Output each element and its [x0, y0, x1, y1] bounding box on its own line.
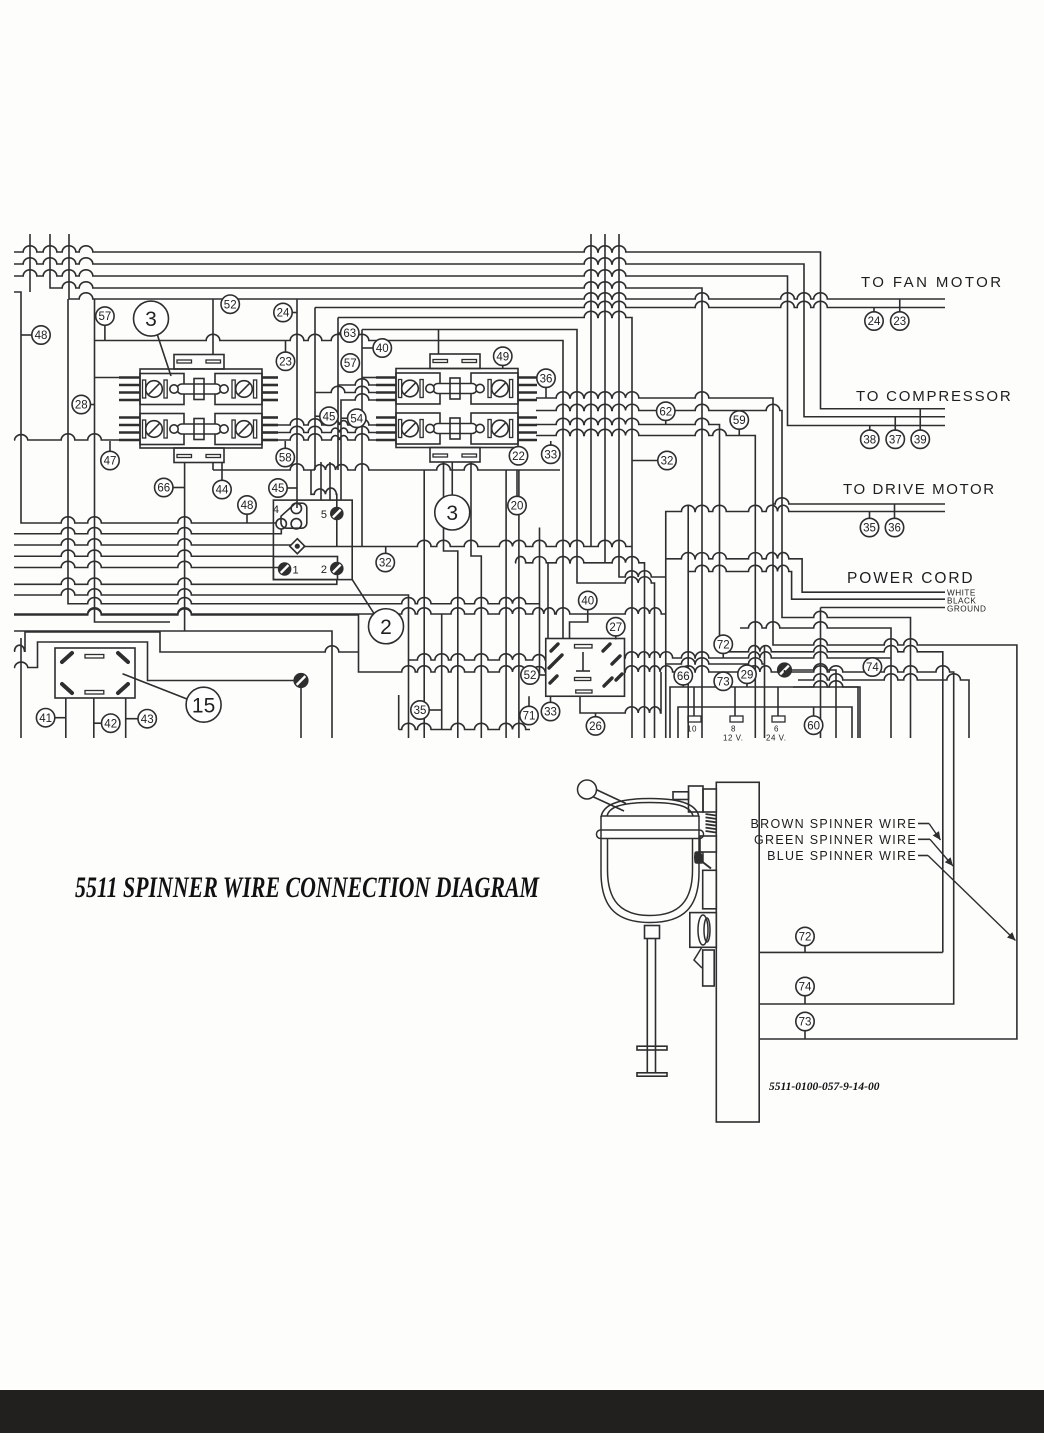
stem 27 — [615, 636, 617, 640]
callout 58 — [276, 448, 294, 466]
terminal board (item 2) — [273, 500, 352, 579]
wire bA — [14, 632, 359, 652]
wire L2 — [14, 258, 945, 417]
wire L5 — [69, 234, 945, 299]
wire w628 — [740, 622, 891, 738]
wire b7 — [14, 578, 337, 584]
callout 38 — [861, 430, 879, 448]
callout big 2 — [369, 609, 404, 644]
callout 47 — [101, 451, 119, 469]
wire pinA feed — [14, 434, 119, 440]
stem bat3 — [777, 687, 779, 716]
wire v688ext — [687, 505, 689, 572]
wire q7 — [518, 470, 520, 738]
svg-text:33: 33 — [544, 449, 557, 461]
svg-text:66: 66 — [677, 671, 690, 683]
svg-text:45: 45 — [272, 483, 285, 495]
callout 44 — [213, 480, 231, 498]
callout 73 — [714, 672, 732, 690]
svg-text:35: 35 — [414, 705, 427, 717]
pointer line item15 — [123, 674, 188, 699]
wire m3 — [619, 234, 666, 577]
wire q3 — [444, 462, 458, 738]
svg-text:22: 22 — [512, 451, 525, 463]
svg-text:20: 20 — [511, 501, 524, 513]
wire row2 link b — [278, 426, 376, 432]
wire bB — [14, 642, 294, 681]
stem 23a — [285, 341, 287, 353]
wire r2 — [536, 404, 911, 738]
stem 66a — [173, 487, 185, 489]
wire m2 — [604, 234, 606, 563]
svg-text:8: 8 — [731, 725, 736, 734]
svg-text:36: 36 — [540, 373, 553, 385]
svg-text:42: 42 — [104, 718, 117, 730]
svg-text:23: 23 — [893, 316, 906, 328]
svg-text:12 V.: 12 V. — [723, 734, 743, 743]
contactor K1 left pins — [119, 378, 140, 401]
svg-text:10: 10 — [687, 725, 697, 734]
battery charger block — [670, 687, 860, 743]
svg-text:4: 4 — [273, 504, 279, 516]
wire q6 — [505, 470, 507, 738]
stem 59 — [738, 429, 740, 435]
bottom black bar — [0, 1390, 1044, 1433]
stem 36 — [894, 504, 896, 518]
stem 74a — [871, 672, 873, 676]
callout big 3 — [134, 301, 169, 336]
svg-text:37: 37 — [889, 434, 902, 446]
stem 23 fan — [899, 299, 901, 312]
callout 36 — [885, 518, 903, 536]
callout big 15 — [186, 687, 221, 722]
wire pinB2 feed — [338, 379, 376, 385]
svg-text:52: 52 — [224, 299, 237, 311]
wire b10 — [14, 609, 546, 672]
stem 48b — [246, 514, 248, 523]
wire v398b — [398, 695, 400, 730]
stem 24a — [292, 312, 297, 314]
callout 43 — [138, 710, 156, 728]
leader blue — [918, 855, 928, 857]
stem 42 — [94, 722, 102, 724]
svg-text:44: 44 — [216, 485, 229, 497]
wire row2 link c — [278, 434, 376, 440]
svg-text:32: 32 — [379, 558, 392, 570]
svg-text:1: 1 — [293, 565, 299, 577]
stem 62 — [665, 420, 667, 424]
wire L3 — [14, 270, 945, 426]
callout 23 — [276, 352, 294, 370]
svg-text:26: 26 — [589, 721, 602, 733]
callout big 3 — [435, 495, 470, 530]
wire v213 — [212, 299, 214, 355]
wire v338 — [337, 318, 339, 471]
wire screwR — [792, 664, 836, 738]
wire L7 — [338, 311, 632, 738]
svg-text:3: 3 — [145, 308, 157, 331]
screw B stem — [784, 670, 786, 677]
stem 26 — [595, 713, 597, 717]
stem 22 — [518, 446, 520, 448]
callout 62 — [657, 402, 675, 420]
callout 35 — [411, 701, 429, 719]
svg-text:73: 73 — [717, 676, 730, 688]
svg-text:GROUND: GROUND — [947, 605, 986, 614]
wire black — [688, 565, 945, 738]
svg-text:48: 48 — [241, 500, 254, 512]
stem 32b — [385, 547, 387, 554]
wire r5 green — [625, 666, 954, 1004]
svg-text:57: 57 — [99, 311, 112, 323]
callout 20 — [508, 496, 526, 514]
stem 35 — [869, 512, 871, 519]
stem 72 — [804, 946, 806, 953]
wire white — [666, 553, 945, 593]
stem 33b — [550, 441, 552, 445]
wire q35 — [441, 614, 443, 730]
stem pinA1 — [95, 377, 120, 379]
svg-text:59: 59 — [733, 415, 746, 427]
svg-text:GREEN SPINNER WIRE: GREEN SPINNER WIRE — [754, 833, 917, 847]
svg-text:48: 48 — [35, 330, 48, 342]
svg-text:3: 3 — [446, 502, 458, 525]
svg-text:57: 57 — [344, 358, 357, 370]
svg-text:66: 66 — [157, 483, 170, 495]
svg-text:2: 2 — [380, 616, 392, 639]
wire y614 — [14, 608, 666, 614]
callout 72 — [714, 635, 732, 653]
callout 57 — [96, 307, 114, 325]
callout 28 — [72, 395, 90, 413]
svg-text:39: 39 — [914, 434, 927, 446]
wire v213b — [212, 463, 214, 470]
leader green — [918, 838, 930, 840]
callout 45 — [269, 479, 287, 497]
wire w658 — [625, 652, 892, 658]
callout 73 — [796, 1012, 814, 1030]
pointer 3a — [158, 335, 172, 376]
stem 40b — [570, 610, 588, 639]
callout 66 — [674, 667, 692, 685]
svg-text:27: 27 — [609, 622, 622, 634]
callout 72 — [796, 927, 814, 945]
relay (item 27) — [546, 639, 625, 697]
callout 35 — [860, 518, 878, 536]
stem 39 — [919, 409, 921, 430]
terminal screw A — [294, 674, 308, 688]
wire screw15v — [300, 688, 302, 739]
stem 33 — [550, 696, 552, 703]
svg-text:58: 58 — [279, 453, 292, 465]
stem 28 — [90, 404, 94, 406]
wire screw5 stem — [336, 520, 338, 547]
stem 48a — [21, 334, 32, 336]
wire v30 — [29, 234, 31, 292]
callout 36 — [537, 369, 555, 387]
wire L4 — [50, 234, 702, 738]
stem 47 — [109, 441, 111, 451]
svg-text:47: 47 — [104, 456, 117, 468]
callout 42 — [102, 714, 120, 732]
stem 45b — [287, 487, 296, 489]
svg-text:TO COMPRESSOR: TO COMPRESSOR — [856, 388, 1012, 405]
stem 52 — [229, 299, 231, 313]
wire b1 — [14, 528, 281, 534]
stem 45a — [315, 415, 320, 417]
wire n57 box — [95, 334, 564, 638]
callout 45 — [320, 407, 338, 425]
svg-text:29: 29 — [741, 669, 754, 681]
stem 60 — [813, 707, 815, 716]
callout 32 — [376, 553, 394, 571]
wire r3 — [536, 418, 943, 952]
wire b5 — [14, 561, 279, 567]
stem 49 — [502, 365, 504, 369]
svg-text:52: 52 — [524, 670, 537, 682]
wire L8 — [362, 330, 655, 739]
wire b11 — [14, 631, 332, 738]
svg-text:43: 43 — [141, 714, 154, 726]
callout 48 — [238, 496, 256, 514]
svg-text:2: 2 — [321, 564, 327, 576]
pointer line item2 — [352, 580, 374, 614]
contactor block K1 — [140, 355, 262, 463]
callout 33 — [541, 702, 559, 720]
callout 33 — [542, 445, 560, 463]
terminal screw B — [778, 663, 792, 677]
callout 23 — [891, 312, 909, 330]
wire v297 — [296, 299, 298, 508]
wire m1 — [590, 234, 592, 547]
svg-text:5: 5 — [321, 509, 327, 521]
wire y952 — [759, 951, 943, 953]
contactor block K2 — [396, 354, 518, 462]
stem 20 — [516, 470, 518, 496]
wire v820b — [820, 608, 822, 739]
stem 63 — [338, 332, 341, 334]
stem 58 — [284, 441, 286, 448]
svg-text:40: 40 — [581, 596, 594, 608]
wire v315 — [314, 308, 316, 471]
wire q4 — [471, 462, 481, 738]
svg-text:62: 62 — [659, 406, 672, 418]
callout 37 — [886, 430, 904, 448]
leader brown — [918, 823, 929, 825]
stem pinB1 — [362, 377, 376, 379]
wire r4 — [536, 429, 755, 738]
wire v311 to screw5 — [311, 470, 337, 508]
wire v94 — [95, 299, 171, 622]
callout 74 — [796, 977, 814, 995]
wire v362 — [361, 330, 363, 547]
callout 40 — [373, 339, 391, 357]
wire r1 — [536, 392, 1017, 1039]
callout 48 — [32, 326, 50, 344]
contactor K2 left pins — [376, 378, 396, 401]
callout 63 — [341, 324, 359, 342]
stem tabB feed — [438, 330, 440, 355]
svg-text:60: 60 — [807, 720, 820, 732]
wire row729 — [399, 723, 530, 729]
svg-text:BROWN SPINNER WIRE: BROWN SPINNER WIRE — [751, 817, 917, 831]
callout 39 — [911, 430, 929, 448]
stem 36a — [545, 387, 547, 398]
svg-text:BLUE SPINNER WIRE: BLUE SPINNER WIRE — [767, 849, 917, 863]
svg-text:73: 73 — [799, 1017, 812, 1029]
svg-text:74: 74 — [866, 662, 879, 674]
wire v68 — [68, 299, 540, 604]
wire w664 — [666, 658, 765, 664]
stem 44 — [221, 463, 223, 480]
wire ground — [821, 607, 946, 609]
wire w680 — [798, 674, 969, 738]
stem 73b — [722, 687, 724, 690]
wire q1 — [423, 470, 425, 738]
callout 57 — [341, 354, 359, 372]
callout 22 — [509, 447, 527, 465]
callout 24 — [865, 312, 883, 330]
stem 71 — [528, 696, 530, 707]
svg-text:54: 54 — [350, 413, 363, 425]
svg-text:72: 72 — [717, 639, 730, 651]
wire v21b — [20, 638, 22, 738]
stem 38 — [869, 426, 871, 431]
svg-text:49: 49 — [496, 351, 509, 363]
svg-text:6: 6 — [774, 725, 779, 734]
callout 49 — [494, 347, 512, 365]
wire row2 link a — [278, 419, 376, 425]
svg-text:41: 41 — [39, 713, 52, 725]
svg-text:33: 33 — [544, 707, 557, 719]
svg-text:32: 32 — [661, 456, 674, 468]
callout 66 — [155, 478, 173, 496]
wire w687 — [793, 681, 858, 738]
wire b8 — [14, 589, 546, 660]
svg-text:23: 23 — [279, 356, 292, 368]
wire v21 — [14, 292, 276, 523]
stem 54 — [341, 417, 348, 419]
svg-text:71: 71 — [523, 711, 536, 723]
wire relay bottom — [580, 672, 661, 713]
stem 24 fan — [873, 308, 875, 312]
callout 29 — [738, 665, 756, 683]
wire drive upper — [773, 498, 945, 504]
wire rowB — [515, 557, 645, 738]
wire b3 row — [303, 540, 632, 546]
callout 40 — [579, 591, 597, 609]
wire drive lower — [666, 505, 945, 738]
callout 71 — [520, 706, 538, 724]
wire v548 — [547, 563, 549, 639]
rocker switch (item 15) — [55, 648, 135, 698]
svg-text:24 V.: 24 V. — [766, 734, 786, 743]
stem 66b — [682, 685, 684, 687]
stem 40a — [362, 347, 373, 349]
stem 57 — [104, 325, 106, 340]
svg-text:63: 63 — [343, 328, 356, 340]
stem 73 — [804, 1031, 806, 1039]
svg-text:72: 72 — [799, 932, 812, 944]
stem 32a — [632, 460, 658, 462]
svg-text:24: 24 — [277, 308, 290, 320]
stem 52b — [539, 674, 546, 676]
wire v764 — [764, 645, 766, 738]
stem bat2 — [734, 687, 736, 716]
callout 32 — [658, 451, 676, 469]
stem 72a — [722, 653, 724, 658]
svg-text:5511 SPINNER WIRE CONNECTION D: 5511 SPINNER WIRE CONNECTION DIAGRAM — [75, 872, 540, 904]
stem 29 — [746, 683, 748, 687]
kettle mixer drawing — [578, 780, 760, 1122]
stem 74 — [804, 996, 806, 1004]
callout 74 — [863, 658, 881, 676]
wire pinB3 feed — [315, 386, 376, 392]
callout 24 — [274, 303, 292, 321]
wire v321 — [320, 462, 322, 500]
svg-text:TO FAN MOTOR: TO FAN MOTOR — [861, 274, 1003, 291]
callout 27 — [607, 618, 625, 636]
switch 15 bottom wires — [65, 698, 67, 738]
stem 3b — [451, 463, 453, 496]
svg-text:40: 40 — [376, 343, 389, 355]
svg-text:POWER CORD: POWER CORD — [847, 570, 975, 587]
wire v330 — [329, 462, 331, 500]
contactor K1 right pins — [262, 378, 278, 401]
contactor K2 right pins — [518, 378, 537, 401]
stem 37 — [894, 417, 896, 430]
wire b4 — [14, 550, 273, 556]
wire v184 — [184, 463, 186, 631]
callout 54 — [348, 409, 366, 427]
svg-text:15: 15 — [192, 694, 215, 717]
wire b0 — [213, 464, 560, 470]
callout 52 — [521, 666, 539, 684]
svg-text:24: 24 — [868, 316, 881, 328]
wire L6 — [315, 301, 945, 307]
svg-text:74: 74 — [799, 982, 812, 994]
callout 41 — [36, 709, 54, 727]
stem 41 — [55, 717, 66, 719]
stem bat1 — [693, 687, 695, 716]
svg-text:36: 36 — [888, 523, 901, 535]
wire v539 — [539, 528, 541, 676]
svg-text:45: 45 — [323, 411, 336, 423]
svg-text:28: 28 — [75, 400, 88, 412]
svg-text:TO DRIVE MOTOR: TO DRIVE MOTOR — [843, 481, 996, 498]
svg-text:35: 35 — [863, 523, 876, 535]
wire q8ext — [408, 660, 410, 738]
wire L1 — [14, 246, 945, 409]
callout 26 — [586, 717, 604, 735]
wire b2 — [14, 539, 291, 545]
callout 59 — [730, 411, 748, 429]
stem 35b — [429, 709, 442, 711]
stem 43 — [126, 718, 138, 720]
svg-text:38: 38 — [863, 434, 876, 446]
callout 52 — [221, 295, 239, 313]
callout 60 — [804, 716, 822, 734]
svg-text:5511-0100-057-9-14-00: 5511-0100-057-9-14-00 — [769, 1081, 880, 1093]
wire v341 — [341, 394, 376, 500]
